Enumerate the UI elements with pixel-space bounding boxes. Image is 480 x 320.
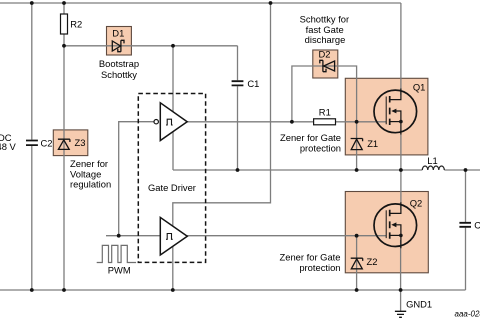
zener Z2 [351,258,363,269]
wire bottom rail [0,289,466,291]
gate driver dashed box [138,94,205,263]
highlight box Q2 [345,192,428,273]
node PWM split [117,234,121,238]
node top rail / C2 [30,1,34,5]
wire bootstrap D1 rail [64,45,238,47]
wire buffer1 supply through symbol to SW node [172,46,174,170]
node gnd / buffer2 [171,288,175,292]
node bootstrap / buffer1 [171,44,175,48]
svg-text:R2: R2 [70,19,82,30]
ground GND1 [395,311,406,317]
svg-text:discharge: discharge [305,34,346,45]
wire gate drive 2 [187,235,386,237]
svg-text:Gate Driver: Gate Driver [148,182,196,193]
node gnd / C2 [30,288,34,292]
node out / C3 [464,168,468,172]
op-amp buffer A2 (bottom) [160,217,187,255]
wire top rail [0,2,401,4]
wire Q2 drain from SW [400,170,402,210]
svg-text:aaa-028: aaa-028 [455,309,480,318]
transistor Q1 (MOSFET) [374,89,417,135]
capacitor C1 [232,81,244,85]
highlight box Z3 [53,130,88,156]
wire Z1 branch [356,122,358,170]
zener Z1 [351,139,363,150]
wire C1 branch [237,46,239,170]
op-amp buffer A1 (inverting, top) [160,103,187,141]
zener Z3 [58,139,70,149]
svg-text:Zener for Gate: Zener for Gate [280,132,341,143]
wire gate drive 1 [187,121,386,123]
svg-text:PWM: PWM [108,265,131,276]
svg-text:Schottky for: Schottky for [300,13,350,24]
svg-text:Zener for Gate: Zener for Gate [280,251,341,262]
svg-text:D2: D2 [319,49,331,60]
svg-text:Q2: Q2 [410,198,423,209]
node SW / Z1 [355,168,359,172]
resistor R1 [314,119,336,125]
node SW / Q1-Q2 [399,168,403,172]
svg-text:Schottky: Schottky [101,69,137,80]
wire PWM input [106,235,160,237]
pulse glyph in buffer A1 [166,119,173,125]
node R2 / D1 [62,44,66,48]
svg-text:regulation: regulation [70,179,111,190]
resistor R2 [61,14,68,34]
highlight box Q1 [345,78,428,155]
PWM waveform glyph [97,245,136,262]
svg-text:Bootstrap: Bootstrap [99,58,139,69]
svg-text:R1: R1 [319,106,331,117]
node gate2 / Z2 [355,234,359,238]
wire R2/Z3 branch [63,3,65,290]
node gate1 / Z1 / D2 right [355,120,359,124]
node gnd / Z2 [355,288,359,292]
capacitor C3 [459,223,471,227]
svg-text:C2: C2 [41,137,53,148]
svg-text:Z3: Z3 [75,137,86,148]
svg-text:Z2: Z2 [367,256,378,267]
wire left branch to C2 [31,3,33,290]
transistor Q2 (MOSFET) [374,202,417,248]
svg-text:D1: D1 [112,27,124,38]
svg-text:protection: protection [300,143,341,154]
wire Z2 branch [356,236,358,290]
node gnd / Z3 [62,288,66,292]
wire output C3 branch [465,170,467,290]
pulse glyph in buffer A2 [166,234,173,240]
svg-text:48 V: 48 V [0,141,17,152]
highlight box D2 [313,50,338,78]
wire D2 bypass branch [292,66,357,122]
node gnd / Q2 source [399,288,403,292]
node top rail / R2 [62,1,66,5]
diode D2 (schottky, pointing left) [320,60,335,71]
svg-text:L1: L1 [427,155,437,166]
highlight box D1 [107,27,132,56]
svg-text:GND1: GND1 [406,298,432,309]
svg-text:Z1: Z1 [367,138,378,149]
capacitor C2 [26,141,38,146]
svg-text:C1: C1 [247,78,259,89]
diode D1 (bootstrap schottky) [112,40,124,51]
svg-text:C3: C3 [474,220,480,231]
wire buffer1 input from PWM node [119,122,155,236]
svg-text:Q1: Q1 [413,82,426,93]
wire buffer2 supply from top rail [173,3,271,290]
node SW / C1 [236,168,240,172]
node gate1 / D2 left [290,120,294,124]
wire Q1 source to SW [400,130,402,170]
wire Q1 drain from rail [400,3,402,95]
svg-text:protection: protection [299,262,340,273]
wire ground stub [400,290,402,311]
inductor L1 [422,166,444,170]
wire SW rail [173,169,480,171]
wire Q2 source to ground rail [400,240,402,290]
node top rail / buffer2 supply [269,1,273,5]
